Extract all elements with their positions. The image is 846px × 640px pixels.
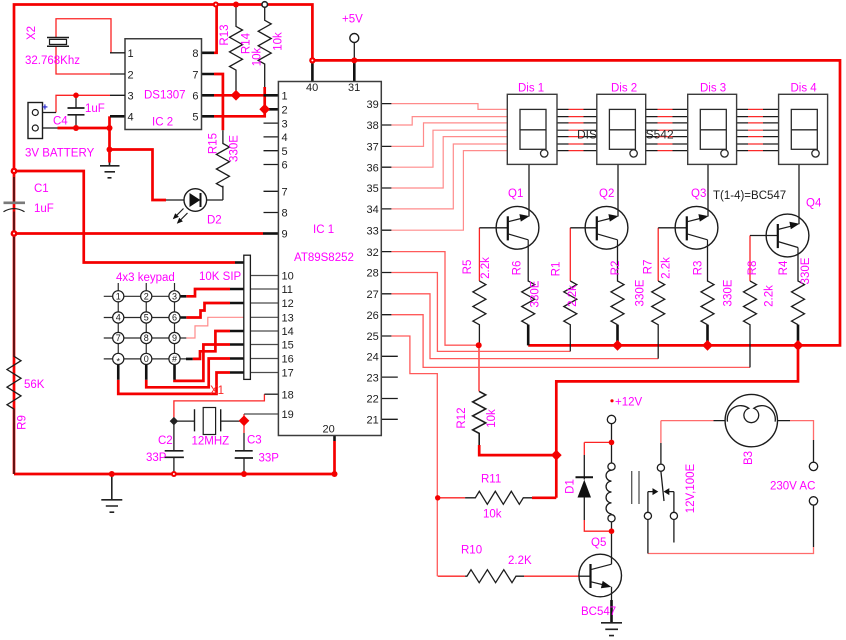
svg-text:6: 6 — [192, 91, 198, 103]
svg-text:20: 20 — [323, 424, 335, 436]
svg-text:R9: R9 — [17, 415, 29, 430]
svg-text:1uF: 1uF — [34, 203, 54, 215]
svg-text:D2: D2 — [207, 215, 222, 227]
svg-text:+12V: +12V — [615, 397, 643, 409]
svg-text:C2: C2 — [158, 435, 173, 447]
svg-text:8: 8 — [192, 48, 198, 60]
svg-text:R5: R5 — [462, 260, 474, 275]
svg-text:7: 7 — [192, 70, 198, 82]
svg-text:3: 3 — [282, 118, 288, 130]
svg-text:26: 26 — [367, 310, 379, 322]
svg-text:4: 4 — [128, 112, 134, 124]
svg-text:31: 31 — [348, 82, 360, 94]
svg-text:12: 12 — [282, 298, 294, 310]
svg-text:3: 3 — [128, 91, 134, 103]
svg-text:Q2: Q2 — [599, 188, 614, 200]
svg-text:9: 9 — [282, 229, 288, 241]
svg-text:R10: R10 — [461, 545, 482, 557]
svg-text:17: 17 — [282, 368, 294, 380]
svg-text:C3: C3 — [247, 435, 262, 447]
svg-text:0: 0 — [144, 354, 149, 364]
svg-text:Q4: Q4 — [806, 198, 822, 210]
svg-text:330E: 330E — [635, 279, 647, 306]
svg-text:B3: B3 — [743, 451, 755, 465]
svg-text:X2: X2 — [26, 26, 38, 40]
svg-text:R15: R15 — [208, 133, 220, 154]
svg-text:R1: R1 — [551, 262, 563, 277]
svg-text:C1: C1 — [34, 183, 49, 195]
svg-text:6: 6 — [282, 160, 288, 172]
svg-text:19: 19 — [282, 409, 294, 421]
svg-text:2: 2 — [128, 70, 134, 82]
svg-text:7: 7 — [282, 187, 288, 199]
svg-text:27: 27 — [367, 289, 379, 301]
svg-text:5: 5 — [282, 146, 288, 158]
svg-text:2: 2 — [282, 105, 288, 117]
svg-text:C4: C4 — [53, 116, 68, 128]
svg-text:R4: R4 — [778, 260, 790, 275]
svg-text:330E: 330E — [800, 257, 812, 284]
svg-text:+5V: +5V — [342, 14, 363, 26]
svg-text:1: 1 — [282, 91, 288, 103]
svg-text:2.2k: 2.2k — [764, 285, 776, 307]
svg-text:D1: D1 — [565, 479, 577, 494]
svg-text:21: 21 — [367, 415, 379, 427]
svg-text:10k: 10k — [486, 409, 498, 428]
svg-text:22: 22 — [367, 394, 379, 406]
svg-text:18: 18 — [282, 389, 294, 401]
svg-text:+: + — [42, 103, 48, 114]
svg-text:12V,100E: 12V,100E — [685, 463, 697, 513]
svg-text:40: 40 — [306, 82, 318, 94]
svg-text:3: 3 — [172, 292, 177, 302]
svg-text:8: 8 — [282, 208, 288, 220]
svg-text:330E: 330E — [229, 135, 241, 162]
svg-text:X1: X1 — [210, 385, 224, 397]
svg-text:330E: 330E — [723, 279, 735, 306]
svg-text:8: 8 — [144, 333, 149, 343]
svg-text:1: 1 — [128, 48, 134, 60]
svg-text:9: 9 — [172, 333, 177, 343]
svg-text:2.2K: 2.2K — [508, 555, 532, 567]
svg-text:33P: 33P — [259, 453, 280, 465]
svg-text:R2: R2 — [610, 261, 622, 276]
svg-text:Dis 2: Dis 2 — [611, 83, 637, 95]
svg-text:12MHZ: 12MHZ — [192, 436, 230, 448]
svg-text:23: 23 — [367, 372, 379, 384]
svg-text:11: 11 — [282, 284, 293, 296]
svg-text:28: 28 — [367, 268, 379, 280]
svg-text:IC 1: IC 1 — [313, 224, 334, 236]
svg-text:Dis 1: Dis 1 — [518, 83, 544, 95]
svg-text:230V AC: 230V AC — [770, 481, 815, 493]
svg-text:38: 38 — [367, 120, 379, 132]
svg-text:10K SIP: 10K SIP — [199, 271, 242, 283]
svg-text:2.2k: 2.2k — [567, 285, 579, 307]
svg-text:Q3: Q3 — [691, 188, 706, 200]
svg-text:16: 16 — [282, 354, 294, 366]
svg-text:Q1: Q1 — [508, 188, 523, 200]
svg-text:2.2k: 2.2k — [661, 257, 673, 279]
svg-text:25: 25 — [367, 331, 379, 343]
svg-text:1uF: 1uF — [85, 103, 105, 115]
svg-text:56K: 56K — [24, 379, 45, 391]
svg-text:7: 7 — [116, 333, 121, 343]
svg-text:Dis 4: Dis 4 — [791, 83, 818, 95]
svg-text:BC547: BC547 — [581, 606, 616, 618]
svg-text:10k: 10k — [252, 47, 264, 66]
svg-text:Dis 3: Dis 3 — [700, 83, 726, 95]
svg-text:34: 34 — [367, 204, 379, 216]
svg-text:2: 2 — [144, 292, 149, 302]
svg-text:R8: R8 — [747, 261, 759, 276]
svg-text:39: 39 — [367, 99, 379, 111]
svg-text:#: # — [172, 354, 177, 364]
svg-text:R11: R11 — [481, 474, 501, 486]
svg-text:33P: 33P — [146, 452, 167, 464]
svg-text:36: 36 — [367, 162, 379, 174]
svg-text:15: 15 — [282, 340, 294, 352]
svg-text:4x3 keypad: 4x3 keypad — [116, 272, 175, 284]
svg-text:4: 4 — [282, 132, 288, 144]
svg-text:*: * — [116, 357, 120, 367]
svg-text:5: 5 — [192, 112, 198, 124]
svg-text:35: 35 — [367, 183, 379, 195]
svg-text:DS1307: DS1307 — [144, 90, 186, 102]
svg-text:37: 37 — [367, 142, 379, 154]
svg-text:R3: R3 — [693, 261, 705, 276]
svg-text:32.768Khz: 32.768Khz — [25, 55, 80, 67]
svg-text:330E: 330E — [530, 280, 542, 307]
svg-text:AT89S8252: AT89S8252 — [294, 252, 354, 264]
svg-text:4: 4 — [116, 313, 121, 323]
svg-text:1: 1 — [116, 292, 121, 302]
svg-text:10: 10 — [282, 271, 294, 283]
svg-text:10k: 10k — [483, 509, 502, 521]
svg-text:T(1-4)=BC547: T(1-4)=BC547 — [713, 190, 786, 202]
svg-text:32: 32 — [367, 247, 379, 259]
svg-text:Q5: Q5 — [591, 537, 606, 549]
svg-text:14: 14 — [282, 326, 294, 338]
svg-text:5: 5 — [144, 313, 149, 323]
svg-text:13: 13 — [282, 313, 294, 325]
svg-text:6: 6 — [172, 313, 177, 323]
svg-text:R12: R12 — [456, 407, 468, 428]
svg-text:IC 2: IC 2 — [152, 117, 173, 129]
svg-text:2.2k: 2.2k — [480, 257, 492, 279]
svg-text:33: 33 — [367, 225, 379, 237]
svg-text:24: 24 — [367, 352, 379, 364]
svg-text:R7: R7 — [643, 260, 655, 275]
svg-text:3V BATTERY: 3V BATTERY — [25, 148, 95, 160]
svg-text:10k: 10k — [273, 32, 285, 51]
svg-text:R6: R6 — [512, 261, 524, 276]
svg-text:R13: R13 — [219, 24, 231, 45]
